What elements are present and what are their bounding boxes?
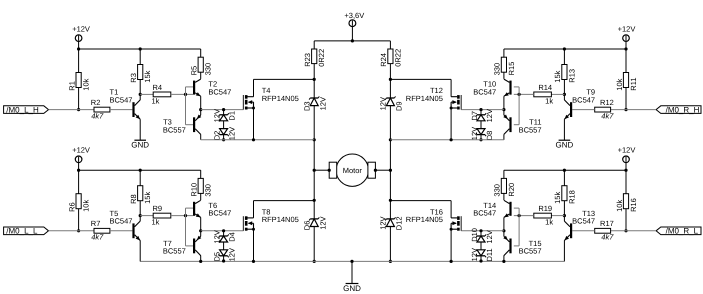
node rail/R3 bbox=[139, 47, 142, 50]
node source T12 bbox=[450, 138, 453, 141]
node input/R6 bbox=[77, 229, 80, 232]
node source T8 bbox=[252, 260, 255, 263]
wire collector T5 bbox=[139, 216, 141, 222]
node collector T9 bbox=[563, 93, 566, 96]
svg-text:D8: D8 bbox=[485, 131, 494, 141]
node collector T15 bbox=[502, 260, 505, 263]
svg-text:D3: D3 bbox=[302, 101, 311, 111]
net flag /M0_R_H bbox=[656, 105, 701, 114]
wire input bbox=[49, 109, 95, 111]
resistor R3 15k bbox=[129, 65, 152, 83]
node driver out bbox=[502, 229, 505, 232]
wire source node bbox=[201, 139, 315, 141]
svg-text:RFP14N05: RFP14N05 bbox=[406, 215, 443, 224]
ground GND (T9) bbox=[556, 140, 574, 149]
svg-text:Motor: Motor bbox=[343, 166, 363, 175]
wire emitter T2 bbox=[200, 96, 202, 109]
svg-text:GND: GND bbox=[556, 140, 574, 149]
wire collector T11 bbox=[503, 134, 505, 140]
node zener/source bbox=[222, 259, 225, 262]
wire R10 column bbox=[200, 170, 202, 200]
wire collector T7 bbox=[200, 256, 202, 262]
wire R18 column bbox=[563, 170, 565, 215]
svg-text:R10: R10 bbox=[190, 183, 199, 197]
svg-text:1k: 1k bbox=[152, 218, 160, 227]
svg-text:12V: 12V bbox=[228, 127, 237, 140]
svg-text:12V: 12V bbox=[470, 248, 479, 261]
ground GND (T1) bbox=[131, 140, 149, 149]
wire drain T4 bbox=[253, 79, 255, 96]
svg-text:R3: R3 bbox=[129, 73, 138, 83]
node zener/gate bbox=[479, 108, 482, 111]
svg-text:330: 330 bbox=[493, 184, 502, 197]
wire base T2 bbox=[186, 86, 194, 88]
wire input bbox=[49, 230, 95, 232]
node zener/source bbox=[479, 138, 482, 141]
zener D12 12V bbox=[379, 216, 404, 230]
svg-text:R9: R9 bbox=[153, 204, 163, 213]
wire +12V stub bbox=[78, 41, 80, 49]
svg-text:BC547: BC547 bbox=[572, 95, 595, 104]
node motor left bbox=[313, 169, 316, 172]
node driver out bbox=[502, 108, 505, 111]
node drain node TL bbox=[313, 78, 316, 81]
resistor R6 10k bbox=[67, 194, 90, 212]
node base T2 bbox=[184, 93, 187, 96]
wire base T9 bbox=[572, 109, 595, 111]
svg-text:GND: GND bbox=[343, 284, 361, 293]
svg-text:0R22: 0R22 bbox=[393, 49, 402, 67]
zener D11 12V bbox=[470, 248, 494, 261]
wire zener bottom stub bbox=[223, 256, 225, 261]
wire +12V rail bbox=[79, 169, 201, 171]
svg-text:10k: 10k bbox=[615, 78, 624, 90]
zener D7 12V bbox=[470, 109, 494, 122]
svg-text:R5: R5 bbox=[190, 66, 199, 76]
power +3,6V supply symbol bbox=[344, 11, 364, 27]
power +12V supply (T9 quadrant) bbox=[618, 24, 636, 41]
ground GND center bbox=[343, 261, 361, 293]
node source node TL bbox=[313, 138, 316, 141]
node source T4 bbox=[252, 138, 255, 141]
wire emitter T5 bbox=[139, 240, 141, 261]
wire base drop T7 bbox=[185, 208, 187, 246]
svg-text:D4: D4 bbox=[228, 232, 237, 242]
wire R19 right bbox=[514, 215, 534, 217]
wire emitter T15 bbox=[503, 231, 505, 237]
wire R9 right bbox=[171, 215, 193, 217]
svg-text:R13: R13 bbox=[567, 69, 576, 83]
svg-text:15k: 15k bbox=[143, 192, 152, 204]
wire input bbox=[611, 230, 657, 232]
svg-text:+12V: +12V bbox=[72, 24, 90, 33]
svg-text:/M0_R_L: /M0_R_L bbox=[666, 227, 699, 236]
svg-text:12V: 12V bbox=[485, 230, 494, 243]
node rail/R13 bbox=[563, 47, 566, 50]
node drain node BL bbox=[313, 199, 316, 202]
node driver out bbox=[199, 229, 202, 232]
zener D8 12V bbox=[470, 127, 494, 140]
node zener/gate bbox=[222, 108, 225, 111]
svg-text:R2: R2 bbox=[91, 98, 101, 107]
net flag /M0_L_H bbox=[4, 105, 49, 114]
svg-text:RFP14N05: RFP14N05 bbox=[262, 215, 299, 224]
svg-text:R1: R1 bbox=[67, 81, 76, 91]
wire base T1 bbox=[110, 109, 132, 111]
svg-text:+3,6V: +3,6V bbox=[344, 11, 364, 20]
wire R16 column bbox=[625, 170, 627, 231]
svg-text:10k: 10k bbox=[82, 200, 91, 212]
node ground stem bbox=[350, 260, 353, 263]
wire emitter T13 bbox=[563, 240, 565, 261]
net flag /M0_R_L bbox=[656, 227, 701, 236]
svg-text:D11: D11 bbox=[485, 248, 494, 261]
zener D9 12V bbox=[379, 96, 404, 111]
node input/R16 bbox=[624, 229, 627, 232]
wire left motor bus bbox=[313, 79, 315, 261]
transistor T1 BC547 bbox=[110, 88, 141, 120]
wire R11 column bbox=[625, 49, 627, 110]
wire R20 column bbox=[503, 170, 505, 200]
svg-text:12V: 12V bbox=[470, 127, 479, 140]
node input/R11 bbox=[624, 108, 627, 111]
resistor R17 4k7 bbox=[595, 219, 615, 242]
svg-text:D9: D9 bbox=[395, 101, 404, 111]
svg-text:/M0_L_L: /M0_L_L bbox=[6, 227, 38, 236]
resistor R9 1k bbox=[152, 204, 171, 226]
wire R15 column bbox=[503, 49, 505, 79]
wire base T5 bbox=[110, 230, 132, 232]
wire +12V stub bbox=[625, 162, 627, 170]
svg-text:D1: D1 bbox=[228, 111, 237, 121]
resistor R8 15k bbox=[129, 186, 152, 204]
svg-text:RFP14N05: RFP14N05 bbox=[262, 94, 299, 103]
wire zener top stub bbox=[223, 231, 225, 236]
wire emitter T11 bbox=[503, 110, 505, 116]
resistor R4 1k bbox=[152, 83, 171, 105]
wire R9 left bbox=[140, 215, 153, 217]
resistor R23 0R22 bbox=[303, 49, 326, 67]
wire base T7 bbox=[186, 245, 194, 247]
transistor T13 BC547 bbox=[564, 209, 595, 241]
svg-text:12V: 12V bbox=[213, 230, 222, 243]
wire R24 top bbox=[389, 41, 391, 49]
wire base T3 bbox=[186, 124, 194, 126]
wire +12V rail bbox=[504, 48, 626, 50]
node source T16 bbox=[450, 260, 453, 263]
svg-text:R19: R19 bbox=[538, 204, 552, 213]
svg-text:12V: 12V bbox=[318, 97, 327, 110]
node base T10 bbox=[518, 93, 521, 96]
svg-text:D12: D12 bbox=[395, 216, 404, 230]
wire source T8 bbox=[253, 229, 255, 261]
zener D3 12V bbox=[302, 96, 327, 111]
svg-text:D10: D10 bbox=[470, 228, 479, 242]
svg-text:10k: 10k bbox=[615, 200, 624, 212]
transistor T14 BC547 bbox=[473, 200, 511, 217]
wire drain to bus bbox=[254, 200, 315, 202]
wire R8 column bbox=[139, 170, 141, 215]
wire R13 column bbox=[563, 49, 565, 94]
wire source T12 bbox=[450, 108, 452, 140]
wire R23 top bbox=[313, 41, 315, 49]
node rail/R18 bbox=[563, 169, 566, 172]
wire collector T15 bbox=[503, 256, 505, 262]
svg-text:4k7: 4k7 bbox=[91, 233, 104, 242]
node base T14 bbox=[518, 214, 521, 217]
svg-text:GND: GND bbox=[131, 140, 149, 149]
svg-text:BC557: BC557 bbox=[163, 125, 186, 134]
node collector T13 bbox=[563, 214, 566, 217]
wire R4 left bbox=[140, 93, 153, 95]
wire zener bottom stub bbox=[480, 135, 482, 140]
svg-text:12V: 12V bbox=[379, 216, 388, 229]
wire base drop T11 bbox=[518, 87, 520, 125]
svg-text:+12V: +12V bbox=[72, 146, 90, 155]
node ground node BL bbox=[313, 260, 316, 263]
svg-text:12V: 12V bbox=[228, 248, 237, 261]
resistor R14 1k bbox=[534, 83, 554, 105]
svg-text:R18: R18 bbox=[567, 190, 576, 204]
svg-text:330: 330 bbox=[204, 63, 213, 76]
resistor R2 4k7 bbox=[91, 98, 110, 121]
zener D1 12V bbox=[213, 109, 237, 122]
wire drain to bus bbox=[390, 200, 451, 202]
resistor R10 330 bbox=[190, 178, 213, 196]
resistor R24 0R22 bbox=[379, 49, 402, 67]
svg-text:D5: D5 bbox=[213, 252, 222, 262]
wire +3,6V stub bbox=[351, 27, 353, 41]
wire +12V stub bbox=[625, 41, 627, 49]
resistor R13 15k bbox=[553, 65, 576, 83]
wire drain T16 bbox=[450, 201, 452, 218]
svg-text:D2: D2 bbox=[213, 131, 222, 141]
wire collector T13 bbox=[563, 216, 565, 222]
svg-text:BC547: BC547 bbox=[572, 217, 595, 226]
wire gate T8 bbox=[201, 230, 244, 232]
svg-text:R12: R12 bbox=[600, 98, 614, 107]
svg-text:BC547: BC547 bbox=[208, 209, 231, 218]
wire base T11 bbox=[514, 124, 519, 126]
resistor R7 4k7 bbox=[91, 219, 110, 242]
wire zener top stub bbox=[480, 231, 482, 236]
node rail/R11 bbox=[624, 47, 627, 50]
node base T6 bbox=[184, 214, 187, 217]
svg-text:15k: 15k bbox=[553, 70, 562, 82]
mosfet T4 RFP14N05 bbox=[243, 86, 298, 109]
svg-text:R7: R7 bbox=[91, 219, 101, 228]
svg-text:4k7: 4k7 bbox=[601, 111, 614, 120]
svg-text:R8: R8 bbox=[129, 194, 138, 204]
wire R23 bottom bbox=[313, 64, 315, 80]
node zener/source bbox=[222, 138, 225, 141]
svg-text:12V: 12V bbox=[379, 97, 388, 110]
wire base T6 bbox=[186, 207, 194, 209]
svg-text:12V: 12V bbox=[318, 216, 327, 229]
node motor right bbox=[389, 169, 392, 172]
transistor T2 BC547 bbox=[193, 79, 231, 96]
node zener/source bbox=[479, 259, 482, 262]
svg-text:12V: 12V bbox=[485, 109, 494, 122]
mosfet T16 RFP14N05 bbox=[406, 207, 461, 230]
svg-text:4k7: 4k7 bbox=[601, 233, 614, 242]
node supply junction bbox=[351, 39, 354, 42]
node collector T7 bbox=[199, 260, 202, 263]
svg-text:1k: 1k bbox=[545, 218, 553, 227]
wire R1 column bbox=[78, 49, 80, 110]
svg-text:4k7: 4k7 bbox=[91, 111, 104, 120]
transistor T5 BC547 bbox=[110, 209, 141, 241]
svg-text:D7: D7 bbox=[470, 111, 479, 121]
wire R5 column bbox=[200, 49, 202, 79]
svg-text:R16: R16 bbox=[629, 198, 638, 212]
mosfet T12 RFP14N05 bbox=[406, 86, 461, 109]
mosfet T8 RFP14N05 bbox=[243, 207, 298, 230]
resistor R15 330 bbox=[493, 57, 516, 75]
wire gate T4 bbox=[201, 109, 244, 111]
svg-text:0R22: 0R22 bbox=[317, 49, 326, 67]
wire R14 left bbox=[551, 93, 564, 95]
transistor T9 BC547 bbox=[564, 88, 595, 120]
wire drain T8 bbox=[253, 201, 255, 218]
svg-text:BC557: BC557 bbox=[519, 125, 542, 134]
transistor T7 BC557 bbox=[163, 236, 201, 256]
power +12V supply (T13 quadrant) bbox=[618, 146, 636, 163]
wire base T13 bbox=[572, 230, 595, 232]
wire zener middle bbox=[223, 242, 225, 250]
svg-text:BC557: BC557 bbox=[519, 247, 542, 256]
svg-text:R4: R4 bbox=[153, 83, 163, 92]
svg-text:R24: R24 bbox=[379, 53, 388, 67]
wire R3 column bbox=[139, 49, 141, 94]
svg-text:BC547: BC547 bbox=[110, 217, 133, 226]
wire base T10 bbox=[514, 86, 519, 88]
wire ground bus bbox=[140, 260, 564, 262]
zener D10 12V bbox=[470, 228, 494, 244]
wire R14 right bbox=[514, 93, 534, 95]
svg-text:BC547: BC547 bbox=[208, 87, 231, 96]
svg-text:D6: D6 bbox=[302, 221, 311, 231]
wire R19 left bbox=[551, 215, 564, 217]
wire emitter T10 bbox=[503, 96, 505, 109]
svg-text:R15: R15 bbox=[507, 62, 516, 76]
wire drain T12 bbox=[450, 79, 452, 96]
wire emitter T1 bbox=[139, 119, 141, 140]
transistor T10 BC547 bbox=[473, 79, 511, 96]
wire zener middle bbox=[223, 121, 225, 129]
zener D6 12V bbox=[302, 216, 327, 230]
node drain node BR bbox=[389, 199, 392, 202]
resistor R12 4k7 bbox=[595, 98, 615, 121]
power +12V supply (T1 quadrant) bbox=[72, 24, 90, 41]
motor M bbox=[314, 154, 390, 186]
resistor R5 330 bbox=[190, 57, 213, 75]
svg-text:10k: 10k bbox=[82, 78, 91, 90]
zener D2 12V bbox=[213, 127, 237, 140]
wire zener top stub bbox=[480, 110, 482, 115]
svg-text:RFP14N05: RFP14N05 bbox=[406, 94, 443, 103]
wire top supply rail bbox=[314, 40, 390, 42]
wire collector T3 bbox=[200, 134, 202, 140]
net flag /M0_L_L bbox=[4, 227, 49, 236]
wire +12V rail bbox=[504, 169, 626, 171]
svg-text:R14: R14 bbox=[538, 83, 552, 92]
node rail/R8 bbox=[139, 169, 142, 172]
node rail/R6 bbox=[77, 169, 80, 172]
resistor R16 10k bbox=[615, 194, 638, 212]
wire +12V stub bbox=[78, 162, 80, 170]
node input/R1 bbox=[77, 108, 80, 111]
wire source node bbox=[390, 139, 504, 141]
wire zener top stub bbox=[223, 110, 225, 115]
wire right motor bus bbox=[389, 79, 391, 261]
node rail/R1 bbox=[77, 47, 80, 50]
node source node TR bbox=[389, 138, 392, 141]
node zener/gate bbox=[222, 229, 225, 232]
svg-text:BC547: BC547 bbox=[110, 95, 133, 104]
wire emitter T6 bbox=[200, 217, 202, 230]
wire base T15 bbox=[514, 245, 519, 247]
svg-text:330: 330 bbox=[493, 63, 502, 76]
svg-text:/M0_R_H: /M0_R_H bbox=[666, 105, 700, 114]
wire gate T12 bbox=[461, 109, 504, 111]
wire emitter T9 bbox=[563, 119, 565, 140]
svg-text:BC547: BC547 bbox=[473, 209, 496, 218]
transistor T3 BC557 bbox=[163, 115, 201, 135]
svg-text:R23: R23 bbox=[303, 53, 312, 67]
wire source T4 bbox=[253, 108, 255, 140]
svg-text:15k: 15k bbox=[553, 192, 562, 204]
node driver out bbox=[199, 108, 202, 111]
wire R4 right bbox=[171, 93, 193, 95]
wire R6 column bbox=[78, 170, 80, 231]
svg-text:+12V: +12V bbox=[618, 146, 636, 155]
wire gate T16 bbox=[461, 230, 504, 232]
wire +12V rail bbox=[79, 48, 201, 50]
svg-text:R11: R11 bbox=[629, 77, 638, 90]
svg-text:+12V: +12V bbox=[618, 24, 636, 33]
svg-text:1k: 1k bbox=[545, 96, 553, 105]
transistor T6 BC547 bbox=[193, 200, 231, 217]
resistor R19 1k bbox=[534, 204, 554, 226]
transistor T11 BC557 bbox=[503, 115, 541, 135]
svg-text:12V: 12V bbox=[213, 109, 222, 122]
svg-text:/M0_L_H: /M0_L_H bbox=[6, 105, 39, 114]
resistor R1 10k bbox=[67, 73, 90, 91]
wire R24 bottom bbox=[389, 64, 391, 80]
svg-text:BC547: BC547 bbox=[473, 87, 496, 96]
wire zener bottom stub bbox=[480, 256, 482, 261]
wire emitter T14 bbox=[503, 217, 505, 230]
wire drain to bus bbox=[390, 78, 451, 80]
wire collector T9 bbox=[563, 94, 565, 100]
node collector T1 bbox=[139, 93, 142, 96]
svg-text:R6: R6 bbox=[67, 202, 76, 212]
wire base drop T3 bbox=[185, 87, 187, 125]
wire zener middle bbox=[480, 242, 482, 250]
svg-text:R17: R17 bbox=[600, 219, 614, 228]
node collector T5 bbox=[139, 214, 142, 217]
wire zener bottom stub bbox=[223, 135, 225, 140]
node drain node TR bbox=[389, 78, 392, 81]
transistor T15 BC557 bbox=[503, 236, 541, 256]
wire collector T1 bbox=[139, 94, 141, 100]
wire drain to bus bbox=[254, 78, 315, 80]
wire base drop T15 bbox=[518, 208, 520, 246]
wire emitter T7 bbox=[200, 231, 202, 237]
svg-text:15k: 15k bbox=[143, 70, 152, 82]
wire zener middle bbox=[480, 121, 482, 129]
